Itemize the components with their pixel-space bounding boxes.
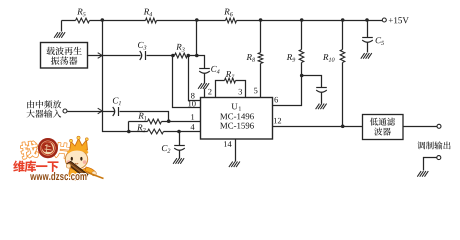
- pin 3 label: [239, 89, 242, 95]
- ground (C5): [361, 53, 372, 59]
- wire: pin 10 connection: [173, 56, 201, 108]
- wire: vertical bus from rail down to R2 row: [103, 21, 130, 132]
- watermark: outlined character 片: [54, 142, 70, 159]
- output return terminal to ground: [424, 156, 441, 171]
- wire: pin 6 to R9: [273, 76, 302, 106]
- wire: R1 left leg down to R2 row: [127, 122, 131, 134]
- carrier oscillator box 载波再生振荡器: [41, 43, 88, 69]
- node: C2 tap: [177, 130, 181, 134]
- wire: pin 12 output row: [273, 125, 363, 129]
- ground (bypass): [316, 104, 327, 110]
- wire: C2 to ground: [179, 151, 181, 159]
- capacitor C2: [162, 132, 185, 153]
- capacitor C3: [138, 42, 146, 60]
- pin 8 label: [191, 93, 195, 99]
- input terminal 由中频放大器输入: [27, 100, 67, 117]
- resistor R1: [129, 113, 169, 124]
- resistor R5: [76, 9, 90, 23]
- resistor R4: [144, 9, 157, 23]
- capacitor C5: [362, 21, 384, 45]
- low-pass filter box 低通滤波器: [363, 115, 404, 140]
- watermark: sword: [66, 161, 103, 178]
- ground (C4 / pin 2): [198, 83, 209, 89]
- wire: pin 14 to ground: [235, 139, 237, 162]
- wire: node to +15V rail: [196, 21, 198, 56]
- capacitor C1: [113, 97, 121, 116]
- ground (output return): [417, 171, 428, 177]
- resistor R2 / pin 4 row: [130, 125, 201, 134]
- arrow into input bus node: [98, 108, 103, 114]
- arrow into carrier bus node: [98, 53, 103, 59]
- node: rail junction dots: [101, 18, 369, 22]
- pin 5 label: [254, 88, 257, 94]
- ground (C2): [173, 158, 184, 164]
- wire: pin 1 row: [167, 119, 201, 123]
- node: carrier bias junctions: [171, 54, 199, 58]
- ground (left of R5): [54, 32, 65, 38]
- wire: pin 2 riser: [204, 89, 206, 98]
- pin 14 label: [224, 141, 232, 147]
- resistor R8 (pin 5 to +15V): [246, 21, 262, 98]
- wire: C4 to ground: [204, 74, 206, 84]
- op-amp U1 MC-1496/MC-1596: [201, 98, 273, 140]
- resistor R9: [287, 21, 304, 76]
- watermark: outlined character 找: [20, 141, 39, 160]
- resistor R6: [224, 9, 236, 23]
- pin 10 label: [188, 101, 195, 107]
- wire: C5 to ground: [367, 43, 369, 53]
- watermark: mascot head: [65, 148, 88, 170]
- wire: oscillator output row: [88, 55, 175, 57]
- top +15V supply rail: [62, 20, 383, 22]
- +15V terminal: [382, 17, 408, 23]
- wire: input row through C1 to pin 1: [68, 112, 169, 122]
- pin 2 label: [208, 89, 211, 95]
- ground (pin 14): [229, 162, 240, 168]
- resistor R7 between pins 2 and 3: [216, 71, 246, 97]
- pin 12 label: [274, 118, 281, 124]
- output label 调制输出: [417, 141, 450, 149]
- bypass capacitor at pin 6: [302, 76, 327, 93]
- watermark: mascot crown: [70, 136, 89, 151]
- pin 4 label: [191, 124, 195, 130]
- resistor R3: [175, 44, 188, 58]
- watermark: seal emblem: [39, 139, 57, 157]
- watermark: 维库一下 red text: [13, 160, 58, 172]
- pin 1 label: [191, 114, 194, 120]
- pin 6 label: [274, 97, 278, 103]
- wire: bypass cap to ground: [321, 93, 323, 104]
- wire: pin 8 connection: [189, 56, 201, 101]
- wire: R3 output node row to C4: [188, 56, 205, 69]
- watermark: mascot body and arms: [69, 167, 97, 180]
- capacitor C4: [199, 66, 219, 74]
- wire: rail left drop to ground: [61, 21, 63, 32]
- watermark: www.dzsc.com: [30, 172, 86, 180]
- node: pin 6 bypass junction: [300, 74, 304, 78]
- wire: LPF output: [404, 124, 442, 128]
- resistor R10: [323, 21, 345, 127]
